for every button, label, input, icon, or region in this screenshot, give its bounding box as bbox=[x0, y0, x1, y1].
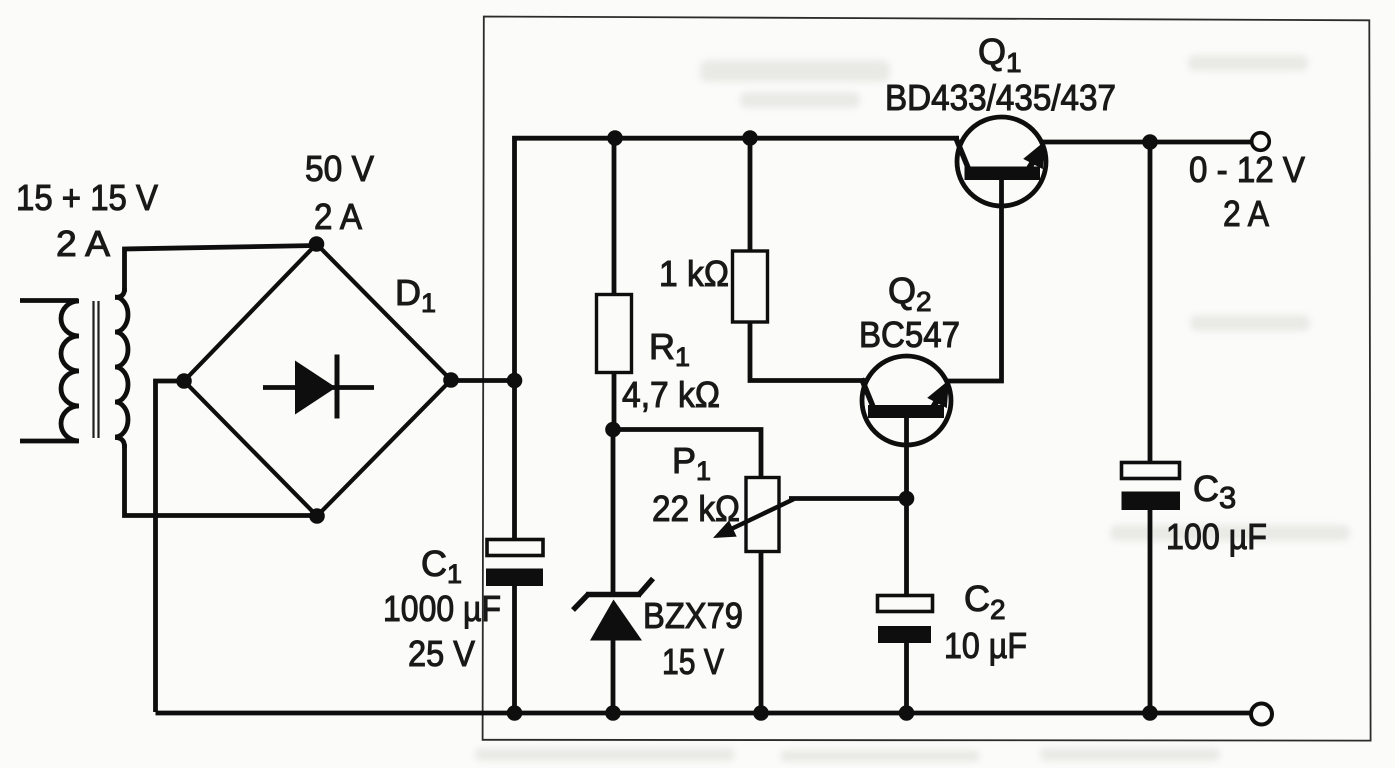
transistor Q2 collector lead bbox=[862, 379, 875, 410]
svg-text:15 + 15 V: 15 + 15 V bbox=[16, 177, 158, 218]
node 1k top junction bbox=[742, 130, 758, 146]
node wiper junction on Q2 line bbox=[899, 491, 915, 507]
wire main left vertical lower (C1 bottom to bottom rail) bbox=[512, 586, 517, 714]
wire bottom rail bbox=[156, 711, 1252, 716]
transistor Q1 emitter lead with arrow bbox=[1023, 141, 1045, 170]
svg-text:50 V: 50 V bbox=[305, 148, 374, 189]
node main vertical / bridge output junction bbox=[507, 373, 523, 389]
svg-text:1 kΩ: 1 kΩ bbox=[659, 253, 729, 294]
svg-text:C1: C1 bbox=[421, 543, 462, 589]
terminal output plus bbox=[1252, 133, 1270, 151]
node R1 top junction bbox=[607, 130, 623, 146]
transistor Q1 circle bbox=[957, 117, 1046, 206]
wire zener bottom lead bbox=[611, 638, 616, 714]
svg-text:C3: C3 bbox=[1193, 468, 1236, 515]
node bridge bottom vertex bbox=[309, 508, 325, 524]
node bridge top vertex bbox=[309, 236, 325, 252]
border frame of inner schematic box bbox=[483, 17, 1371, 741]
capacitor C3 bottom plate bbox=[1122, 492, 1181, 511]
transformer T1 core bbox=[94, 301, 99, 438]
wire Q2 collector to Q1 base bbox=[946, 178, 1002, 381]
node bottom rail C3 bbox=[1142, 705, 1158, 721]
transformer T1 secondary winding bbox=[115, 288, 128, 448]
wire R1 junction to P1 top bbox=[612, 430, 761, 480]
node bridge right vertex bbox=[443, 372, 459, 388]
svg-text:C2: C2 bbox=[964, 578, 1006, 625]
transistor Q2 base bar bbox=[868, 405, 944, 418]
node bottom rail zener bbox=[605, 705, 621, 721]
node R1 bottom junction bbox=[605, 422, 621, 438]
svg-text:1000 µF: 1000 µF bbox=[383, 588, 501, 629]
wire 1k top lead bbox=[748, 138, 753, 253]
svg-text:R1: R1 bbox=[649, 326, 690, 372]
svg-text:15 V: 15 V bbox=[662, 641, 724, 682]
svg-text:10 µF: 10 µF bbox=[944, 625, 1027, 666]
wire top rail bbox=[512, 136, 959, 141]
svg-text:Q2: Q2 bbox=[888, 270, 932, 317]
wire output rail right of Q1 bbox=[1042, 140, 1253, 145]
zener diode D2 triangle bbox=[590, 600, 642, 641]
svg-text:2 A: 2 A bbox=[1223, 193, 1269, 234]
wire main left vertical upper (junction up to top rail) bbox=[512, 136, 517, 538]
transistor Q2 circle bbox=[862, 356, 951, 445]
svg-text:Q1: Q1 bbox=[978, 31, 1022, 78]
capacitor C1 bottom plate bbox=[486, 569, 543, 587]
node C3 top junction bbox=[1142, 134, 1158, 150]
wire left return from bridge left vertex down to bottom rail bbox=[156, 381, 185, 712]
transistor Q2 emitter lead with arrow bbox=[927, 380, 949, 409]
bridge rectifier D1 diamond bbox=[184, 244, 451, 516]
zener diode D2 cathode bar bbox=[573, 579, 653, 611]
resistor 1k body bbox=[733, 251, 768, 322]
transistor Q1 collector lead bbox=[957, 140, 970, 171]
faint scan artifacts (background) bbox=[475, 55, 1350, 762]
svg-text:0 - 12 V: 0 - 12 V bbox=[1189, 149, 1305, 190]
node bottom rail C2 bbox=[899, 705, 915, 721]
transformer T1 primary winding bbox=[20, 301, 79, 442]
svg-text:100 µF: 100 µF bbox=[1166, 516, 1267, 557]
wire secondary bottom lead to bridge bottom bbox=[125, 444, 317, 516]
wire secondary top lead to bridge top bbox=[125, 246, 317, 293]
transistor Q1 base bar bbox=[965, 167, 1041, 181]
capacitor C3 top plate bbox=[1122, 463, 1180, 479]
wire P1 bottom lead bbox=[759, 551, 764, 714]
svg-text:4,7 kΩ: 4,7 kΩ bbox=[622, 374, 720, 415]
resistor R1 body bbox=[597, 295, 632, 373]
wire C2 bottom lead bbox=[904, 643, 909, 714]
wire P1 wiper to Q2 emitter line bbox=[789, 496, 908, 501]
wire R1 top lead bbox=[612, 138, 617, 296]
diode symbol inside D1 bbox=[263, 355, 374, 419]
wire zener branch upper bbox=[611, 430, 616, 595]
capacitor C2 top plate bbox=[878, 596, 933, 612]
capacitor C2 bottom plate bbox=[878, 626, 931, 643]
svg-text:BC547: BC547 bbox=[859, 314, 960, 355]
potentiometer P1 body bbox=[746, 478, 779, 552]
wire R1 bottom lead bbox=[612, 373, 617, 433]
capacitor C1 top plate bbox=[487, 540, 543, 556]
node bottom rail C1 bbox=[507, 705, 523, 721]
wire bridge output to main vertical bbox=[451, 378, 517, 383]
wire C3 branch lower bbox=[1148, 510, 1153, 714]
svg-text:2 A: 2 A bbox=[314, 196, 362, 237]
potentiometer P1 wiper arrow bbox=[713, 499, 794, 538]
svg-text:2 A: 2 A bbox=[56, 223, 110, 264]
wire 1k bottom lead to Q2 base bbox=[750, 321, 867, 381]
svg-text:D1: D1 bbox=[395, 272, 436, 318]
node bottom rail P1 bbox=[753, 705, 769, 721]
node bridge left vertex bbox=[176, 373, 192, 389]
svg-text:BZX79: BZX79 bbox=[643, 595, 743, 636]
wire C3 branch upper bbox=[1148, 142, 1153, 464]
terminal output minus bbox=[1251, 704, 1272, 725]
svg-text:BD433/435/437: BD433/435/437 bbox=[885, 77, 1116, 118]
wire Q2 emitter vertical down to C2 bbox=[904, 416, 909, 595]
svg-text:P1: P1 bbox=[672, 440, 711, 486]
svg-text:25 V: 25 V bbox=[408, 633, 475, 674]
svg-text:22 kΩ: 22 kΩ bbox=[652, 488, 740, 529]
